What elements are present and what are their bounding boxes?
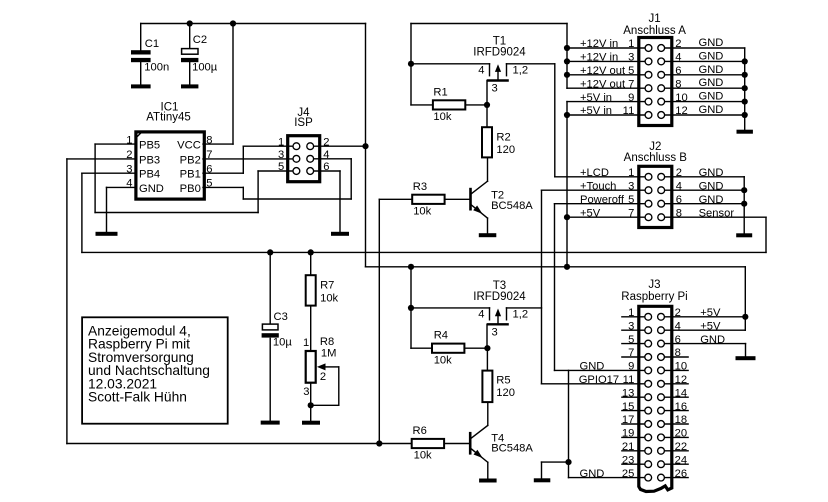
svg-text:GND: GND — [699, 91, 724, 103]
svg-text:+5V: +5V — [700, 307, 721, 319]
svg-text:8: 8 — [675, 78, 681, 90]
svg-text:R2: R2 — [496, 132, 510, 144]
svg-text:GND: GND — [699, 167, 724, 179]
svg-text:C3: C3 — [274, 311, 288, 323]
svg-text:+Touch: +Touch — [580, 180, 616, 192]
svg-text:3: 3 — [303, 386, 309, 398]
svg-text:1,2: 1,2 — [513, 64, 529, 76]
svg-text:13: 13 — [622, 387, 634, 399]
svg-text:GND: GND — [699, 194, 724, 206]
svg-text:7: 7 — [628, 207, 634, 219]
svg-text:1: 1 — [303, 337, 309, 349]
svg-text:8: 8 — [675, 347, 681, 359]
svg-text:BC548A: BC548A — [491, 443, 533, 455]
svg-text:6: 6 — [675, 334, 681, 346]
svg-text:R5: R5 — [496, 374, 510, 386]
svg-text:8: 8 — [676, 207, 682, 219]
svg-text:4: 4 — [478, 64, 484, 76]
svg-text:9: 9 — [628, 361, 634, 373]
svg-text:GPIO17: GPIO17 — [579, 374, 619, 386]
svg-text:ISP: ISP — [294, 117, 313, 129]
svg-text:7: 7 — [628, 347, 634, 359]
svg-text:2: 2 — [323, 136, 329, 148]
svg-text:20: 20 — [675, 428, 687, 440]
svg-text:16: 16 — [675, 401, 687, 413]
svg-text:PB4: PB4 — [139, 169, 160, 181]
svg-text:R7: R7 — [320, 280, 334, 292]
svg-text:10k: 10k — [320, 292, 338, 304]
svg-text:5: 5 — [206, 178, 212, 190]
svg-text:IRFD9024: IRFD9024 — [473, 291, 526, 303]
svg-text:10k: 10k — [413, 206, 431, 218]
svg-text:100µ: 100µ — [192, 61, 218, 73]
svg-text:PB2: PB2 — [180, 154, 201, 166]
svg-text:21: 21 — [622, 441, 634, 453]
svg-text:18: 18 — [675, 414, 687, 426]
svg-text:6: 6 — [676, 194, 682, 206]
svg-text:4: 4 — [675, 320, 681, 332]
svg-text:Raspberry Pi: Raspberry Pi — [621, 291, 687, 303]
svg-text:PB1: PB1 — [180, 169, 201, 181]
svg-text:1: 1 — [628, 38, 634, 50]
svg-text:Anschluss A: Anschluss A — [623, 25, 686, 37]
svg-text:4: 4 — [675, 52, 681, 64]
svg-text:Sensor: Sensor — [699, 207, 735, 219]
svg-text:PB5: PB5 — [139, 140, 160, 152]
svg-text:11: 11 — [623, 105, 635, 117]
svg-text:C1: C1 — [145, 38, 159, 50]
svg-text:25: 25 — [622, 468, 634, 480]
svg-text:GND: GND — [580, 468, 605, 480]
svg-text:4: 4 — [478, 308, 484, 320]
svg-text:GND: GND — [699, 37, 724, 49]
svg-text:+5V: +5V — [700, 320, 721, 332]
svg-text:23: 23 — [622, 454, 634, 466]
svg-text:10k: 10k — [433, 111, 451, 123]
svg-text:7: 7 — [628, 78, 634, 90]
svg-text:2: 2 — [675, 307, 681, 319]
svg-text:1: 1 — [628, 167, 634, 179]
svg-text:9: 9 — [628, 92, 634, 104]
svg-text:PB0: PB0 — [180, 183, 201, 195]
svg-text:3: 3 — [492, 326, 498, 338]
svg-text:7: 7 — [206, 149, 212, 161]
svg-text:ATtiny45: ATtiny45 — [146, 112, 191, 124]
svg-text:100n: 100n — [144, 61, 169, 73]
svg-text:14: 14 — [675, 387, 687, 399]
svg-text:26: 26 — [675, 468, 687, 480]
svg-text:3: 3 — [278, 149, 284, 161]
svg-text:GND: GND — [699, 77, 724, 89]
svg-text:6: 6 — [206, 163, 212, 175]
svg-text:8: 8 — [206, 134, 212, 146]
svg-text:2: 2 — [676, 167, 682, 179]
svg-text:120: 120 — [496, 144, 515, 156]
svg-text:Scott-Falk Hühn: Scott-Falk Hühn — [88, 390, 187, 405]
svg-text:Poweroff: Poweroff — [580, 194, 625, 206]
svg-text:24: 24 — [675, 454, 687, 466]
svg-text:GND: GND — [699, 104, 724, 116]
svg-text:R6: R6 — [413, 425, 427, 437]
svg-text:10k: 10k — [414, 450, 432, 462]
svg-text:J1: J1 — [649, 13, 661, 25]
svg-text:15: 15 — [622, 401, 634, 413]
svg-text:Anschluss B: Anschluss B — [624, 152, 688, 164]
svg-text:1: 1 — [278, 136, 284, 148]
svg-text:1: 1 — [628, 307, 634, 319]
svg-text:1M: 1M — [321, 348, 337, 360]
svg-text:17: 17 — [622, 414, 634, 426]
svg-text:120: 120 — [496, 387, 515, 399]
svg-text:+12V in: +12V in — [580, 52, 618, 64]
svg-text:22: 22 — [675, 441, 687, 453]
svg-text:PB3: PB3 — [139, 154, 160, 166]
svg-text:1: 1 — [126, 134, 132, 146]
svg-text:3: 3 — [628, 52, 634, 64]
svg-text:R8: R8 — [320, 336, 334, 348]
svg-text:6: 6 — [323, 161, 329, 173]
svg-text:3: 3 — [628, 320, 634, 332]
svg-text:10: 10 — [675, 361, 687, 373]
svg-text:10µ: 10µ — [273, 337, 292, 349]
svg-text:10k: 10k — [434, 354, 452, 366]
svg-text:+12V in: +12V in — [580, 38, 618, 50]
svg-text:+12V out: +12V out — [580, 65, 626, 77]
svg-text:+LCD: +LCD — [580, 167, 609, 179]
svg-text:2: 2 — [675, 38, 681, 50]
svg-text:12: 12 — [675, 374, 687, 386]
svg-text:4: 4 — [323, 149, 329, 161]
svg-text:2: 2 — [126, 149, 132, 161]
svg-text:3: 3 — [628, 180, 634, 192]
svg-text:19: 19 — [622, 428, 634, 440]
svg-text:10: 10 — [675, 92, 687, 104]
svg-text:GND: GND — [699, 180, 724, 192]
svg-text:4: 4 — [676, 180, 682, 192]
svg-text:+5V in: +5V in — [580, 105, 612, 117]
svg-text:12: 12 — [675, 105, 687, 117]
svg-text:+5V: +5V — [580, 207, 601, 219]
svg-text:GND: GND — [139, 183, 164, 195]
svg-text:BC548A: BC548A — [491, 200, 533, 212]
svg-text:R4: R4 — [434, 330, 448, 342]
svg-text:GND: GND — [699, 50, 724, 62]
svg-text:GND: GND — [580, 361, 605, 373]
svg-text:+12V out: +12V out — [580, 78, 626, 90]
svg-text:6: 6 — [675, 65, 681, 77]
svg-text:GND: GND — [700, 334, 725, 346]
svg-text:2: 2 — [320, 371, 326, 383]
svg-text:VCC: VCC — [177, 140, 201, 152]
svg-text:5: 5 — [628, 334, 634, 346]
svg-text:GND: GND — [699, 64, 724, 76]
svg-text:11: 11 — [623, 374, 635, 386]
svg-text:5: 5 — [628, 194, 634, 206]
svg-text:C2: C2 — [193, 34, 207, 46]
svg-text:5: 5 — [628, 65, 634, 77]
svg-text:5: 5 — [278, 161, 284, 173]
svg-text:J3: J3 — [648, 279, 660, 291]
svg-text:1,2: 1,2 — [513, 308, 529, 320]
svg-text:R3: R3 — [413, 181, 427, 193]
svg-text:R1: R1 — [433, 86, 447, 98]
svg-text:3: 3 — [126, 163, 132, 175]
svg-text:IRFD9024: IRFD9024 — [473, 46, 526, 58]
svg-text:4: 4 — [126, 178, 132, 190]
svg-text:3: 3 — [492, 82, 498, 94]
svg-text:+5V in: +5V in — [580, 92, 612, 104]
